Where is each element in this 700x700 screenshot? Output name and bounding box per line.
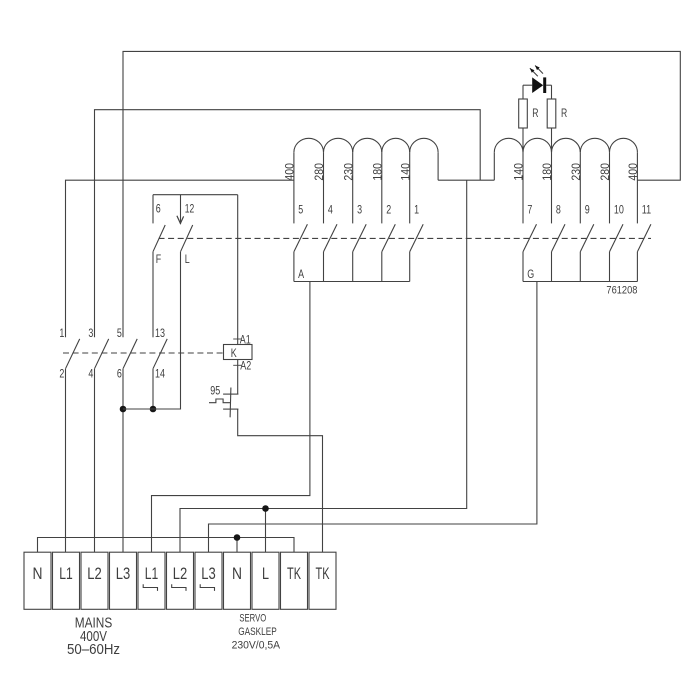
svg-text:L1: L1 [145,565,158,583]
svg-text:L: L [262,566,269,584]
svg-text:13: 13 [155,327,165,341]
svg-text:10: 10 [614,203,624,217]
svg-text:SERVO: SERVO [239,612,266,625]
svg-text:L1: L1 [59,565,72,583]
svg-text:400: 400 [284,163,297,180]
svg-text:TK: TK [287,564,302,583]
svg-text:G: G [527,267,534,281]
svg-text:R: R [532,108,539,121]
svg-text:230: 230 [343,163,356,180]
svg-text:95: 95 [210,384,220,398]
svg-text:280: 280 [314,163,327,180]
svg-text:GASKLEP: GASKLEP [238,626,277,638]
svg-text:400: 400 [628,163,641,180]
svg-text:11: 11 [642,203,651,217]
svg-text:N: N [32,565,42,583]
svg-text:9: 9 [585,203,590,217]
svg-text:R: R [561,108,568,121]
svg-text:2: 2 [59,367,64,381]
svg-text:7: 7 [527,203,532,217]
svg-text:TK: TK [316,564,331,583]
svg-text:N: N [232,565,242,583]
svg-text:1: 1 [59,327,64,341]
svg-text:761208: 761208 [606,285,637,297]
svg-text:A1: A1 [240,334,251,346]
svg-text:140: 140 [513,163,526,180]
svg-text:L2: L2 [87,566,101,584]
svg-text:L3: L3 [201,566,215,584]
svg-text:280: 280 [600,163,613,180]
svg-text:5: 5 [298,203,303,217]
svg-text:6: 6 [117,367,122,381]
svg-text:50–60Hz: 50–60Hz [67,641,120,658]
svg-text:A: A [298,267,305,281]
svg-text:4: 4 [328,203,333,217]
svg-text:4: 4 [88,367,93,381]
svg-text:3: 3 [357,203,362,217]
svg-text:180: 180 [372,163,385,180]
svg-text:3: 3 [88,327,93,341]
svg-text:A2: A2 [240,361,251,373]
svg-text:2: 2 [386,203,391,217]
svg-text:14: 14 [155,367,165,381]
svg-text:12: 12 [185,202,195,216]
svg-text:140: 140 [400,163,413,180]
svg-text:5: 5 [117,327,122,341]
svg-text:K: K [231,347,238,361]
svg-text:230V/0,5A: 230V/0,5A [232,639,281,651]
svg-text:180: 180 [542,163,555,180]
svg-text:L2: L2 [173,566,187,584]
svg-text:6: 6 [156,202,161,216]
svg-text:L: L [185,253,190,267]
svg-text:8: 8 [556,203,561,217]
svg-text:230: 230 [570,163,583,180]
svg-text:1: 1 [414,203,419,217]
svg-text:L3: L3 [116,566,130,584]
svg-text:F: F [156,253,162,267]
